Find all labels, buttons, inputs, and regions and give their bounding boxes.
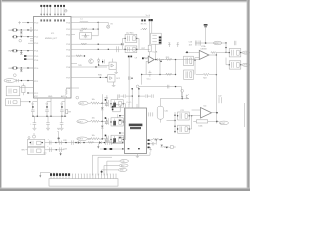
junction after C13 — [160, 61, 162, 63]
junction bottom-left a — [55, 142, 56, 143]
channel row 2 up stubs — [117, 114, 119, 117]
junction row2 — [56, 149, 57, 150]
capacitor C27 plus pair — [45, 139, 58, 145]
capacitor C19 right end — [234, 41, 236, 45]
IC U5 charge caps wires — [132, 88, 139, 108]
RC box B2 — [229, 61, 242, 69]
junction feedback right — [175, 74, 176, 75]
bottom-left filter box 2 — [28, 147, 45, 154]
capacitor C18 left end — [233, 40, 235, 42]
border frame right — [247, 0, 250, 191]
junction bottom-left dark — [58, 137, 60, 139]
channel row 2 resistor R31 — [91, 120, 103, 122]
junction subbox — [29, 101, 30, 102]
svg-text:P3.1: P3.1 — [66, 29, 70, 31]
resistor R19 — [166, 58, 172, 60]
protection diode D1 — [20, 30, 23, 34]
svg-text:P1.5: P1.5 — [34, 56, 38, 58]
channel diode chain 2 — [101, 121, 104, 138]
junction col2 a — [46, 116, 47, 117]
ground col1 — [32, 128, 36, 130]
capacitor C10 — [17, 79, 19, 82]
wire y88 stub — [67, 87, 72, 89]
capacitor C31 plus — [110, 140, 112, 144]
svg-text:P2.1: P2.1 — [34, 81, 38, 83]
wire feedback vertical — [160, 60, 176, 75]
capacitor C28 pair — [56, 140, 66, 144]
transistor circle Q2 — [89, 59, 94, 64]
resistor R17 vertical above op-amp — [148, 45, 151, 56]
channel row 2 net oval — [77, 120, 91, 124]
junction row P3.3 — [98, 44, 99, 45]
ground bottom-left vertical top — [57, 128, 60, 129]
junction P3.7 a — [100, 77, 101, 78]
channel row 3 junction — [102, 138, 104, 140]
junction rail mid — [225, 47, 226, 48]
wire vertical join rows — [97, 22, 99, 35]
wire vertical x129 — [128, 57, 130, 105]
opto U7 ground — [112, 82, 116, 87]
svg-text:OUT: OUT — [243, 65, 246, 67]
top-left caps pair C16 C17 — [189, 41, 201, 47]
IC U1 left pin stubs — [26, 23, 33, 93]
svg-text:OUT3: OUT3 — [78, 139, 83, 141]
IC U5 right pin stubs with labels — [147, 139, 151, 148]
trimmer box RV1 — [80, 32, 92, 39]
connector J3 body — [49, 179, 118, 187]
junction column x175 b — [174, 120, 176, 122]
op-amp U2B input resistor R18 — [144, 57, 149, 59]
wire row P3.4 — [76, 48, 150, 50]
svg-text:P1.1: P1.1 — [34, 30, 38, 32]
junction U2B output — [155, 59, 156, 60]
channel row 1 junction — [102, 102, 104, 104]
wire row P3.3 — [76, 43, 124, 45]
svg-text:VREF: VREF — [6, 80, 12, 82]
bottom rail wire y142.6 — [59, 142, 114, 144]
ground rail — [97, 144, 99, 149]
svg-text:P3.4: P3.4 — [66, 49, 70, 51]
capacitor C15 on mid row — [167, 85, 169, 89]
channel row 1 up stubs — [102, 94, 118, 103]
RC box C2r — [177, 125, 190, 133]
junction LED — [98, 64, 99, 65]
wire top rail to bus — [71, 16, 150, 18]
svg-text:R19: R19 — [166, 57, 169, 59]
wire U2B output — [154, 59, 164, 61]
capacitor row2 C32 — [47, 146, 51, 152]
svg-text:P3.3: P3.3 — [66, 44, 70, 46]
lower rail wire y149 — [100, 148, 125, 150]
wire row P3.1 — [75, 28, 98, 30]
connector J3 left arrow — [39, 173, 41, 178]
wire U2A output — [209, 54, 217, 56]
power flag mid-right — [181, 89, 184, 98]
junction col3 b — [64, 116, 65, 117]
bottom RC row resistor R23 — [151, 138, 163, 140]
IC U5 level shifter body — [125, 108, 147, 154]
junction col1 a — [32, 116, 33, 117]
svg-text:OUT1: OUT1 — [79, 103, 84, 105]
junction column x175 d — [174, 131, 176, 133]
junction oval3 — [101, 171, 103, 173]
RC box B2 out oval label — [242, 63, 249, 66]
junction row9 — [27, 92, 28, 93]
diode D7 on rail — [99, 141, 101, 144]
svg-text:OC2: OC2 — [116, 78, 120, 80]
wire output to boxes — [216, 52, 229, 55]
IC U1 right wire P4.0 — [75, 87, 79, 89]
decoupling column 2 capacitor C3 — [45, 102, 49, 117]
svg-text:C9: C9 — [135, 58, 137, 60]
junction row7 b — [27, 67, 28, 68]
header J1 pin numbers group2 — [54, 14, 64, 15]
svg-text:GND: GND — [48, 96, 53, 98]
RC box B1 — [229, 49, 242, 57]
junction rail a — [65, 142, 66, 143]
IC U5 bottom pin dashes — [128, 148, 140, 149]
junction P3.5 — [84, 55, 85, 56]
channel rows right tie wire — [123, 104, 125, 140]
channel row 2 trimmer — [102, 118, 108, 125]
svg-text:RV1: RV1 — [80, 31, 84, 33]
wire R22 to output — [215, 55, 217, 123]
junction feedback mid — [159, 74, 160, 75]
svg-text:VCC: VCC — [34, 96, 39, 98]
border frame top — [0, 0, 250, 2]
junction row P3.4 b — [108, 49, 109, 50]
crystal box Y1 — [6, 86, 20, 96]
marks x129 pins — [128, 56, 132, 58]
connector J3 pin ticks caps — [72, 173, 116, 175]
junction column x175 c — [174, 125, 176, 127]
decoupling column 2 top tie — [47, 101, 51, 103]
svg-text:C28: C28 — [63, 140, 66, 142]
resistor box col3 branch — [66, 110, 71, 114]
wire output row y59.5 — [161, 59, 199, 61]
wire top rail down — [225, 43, 227, 52]
decoupling column 1 capacitor C1 — [31, 102, 35, 117]
junction R22 right — [216, 74, 217, 75]
circle above box1 — [28, 137, 30, 139]
junction row2 b — [27, 29, 28, 30]
svg-text:C16: C16 — [189, 41, 192, 43]
channel row 3 resistor R32 — [91, 138, 103, 140]
svg-text:10k: 10k — [92, 117, 95, 119]
svg-text:10k: 10k — [92, 135, 95, 137]
sensor port circle — [19, 39, 22, 42]
svg-text:C33: C33 — [63, 148, 66, 150]
svg-text:RX TX: RX TX — [141, 24, 147, 26]
bus wire 1 — [149, 21, 151, 45]
net oval label VCC2 — [213, 41, 221, 45]
pad row5 — [24, 55, 26, 57]
junction rail d — [104, 142, 105, 143]
channel row 2 RC box — [110, 118, 124, 126]
svg-text:LM358: LM358 — [201, 49, 207, 51]
svg-text:P3.2: P3.2 — [66, 35, 70, 37]
boxed resistor RL2 — [184, 70, 194, 79]
diode D4 — [121, 43, 123, 46]
IC U5 left pin stubs — [121, 116, 125, 138]
IC U1 top pin names group1 — [40, 19, 51, 21]
junction top rail — [225, 42, 226, 43]
op-amp U2A — [199, 50, 209, 59]
svg-text:P1.0: P1.0 — [34, 23, 38, 25]
wire feedback down-left — [141, 75, 143, 85]
IC U1 right wire P3.7 row — [79, 76, 108, 78]
sub box bottom-left — [6, 99, 21, 106]
resistor R14 — [81, 43, 87, 45]
bus pin 1 — [149, 19, 151, 21]
junction col1 b — [37, 116, 38, 117]
thermistor circle — [13, 74, 16, 77]
inductor L1 — [80, 21, 88, 22]
decoupling column 1 top tie — [33, 101, 38, 103]
marks x128 cap — [128, 76, 132, 79]
junction U2A output — [216, 54, 217, 55]
electrolytic capacitor C20 tall — [157, 99, 163, 123]
IC U5 left pin marks — [119, 115, 123, 150]
channel row 3 net oval — [77, 137, 91, 141]
svg-text:100k: 100k — [198, 125, 202, 127]
svg-text:C22: C22 — [218, 95, 221, 97]
op-amp U2B — [148, 56, 154, 63]
junction feedback U4 — [216, 121, 218, 123]
junction column x175 top — [174, 114, 176, 116]
op-amp U4 input wires — [192, 110, 201, 115]
net oval label RX — [119, 164, 128, 167]
junction row3 a — [21, 36, 22, 37]
svg-text:C12 R15: C12 R15 — [126, 32, 133, 34]
bulk capacitor C4 — [46, 116, 50, 128]
resistor R13 — [81, 28, 87, 30]
resistor R26 vertical — [65, 88, 67, 98]
svg-text:C21: C21 — [180, 110, 183, 112]
wire right edge vertical — [243, 103, 245, 127]
decoupling column 3 top tie — [62, 101, 65, 103]
port circle right of IC bottom — [76, 96, 79, 99]
net oval label AOUT — [219, 121, 228, 125]
resistor R21 above output — [211, 52, 216, 54]
wire pin5 up — [92, 152, 150, 175]
channel row 3 dark speck — [105, 135, 107, 137]
bottom-left row2 wire — [45, 149, 64, 151]
header J1 pin group 2 leads — [55, 7, 64, 17]
op-amp U2A input wires — [195, 52, 199, 60]
bus pin 2 — [151, 19, 153, 21]
capacitor row2 C33 — [60, 147, 67, 152]
IC U5 top pin stubs — [129, 104, 137, 108]
protection diode D3 — [20, 68, 23, 72]
IC U1 bottom pin stubs — [37, 98, 65, 116]
capacitor C25 — [139, 94, 153, 97]
wire RL join vertical — [194, 60, 196, 74]
pad row6 — [24, 58, 26, 60]
net oval label VREF — [4, 79, 16, 83]
channel row 1 net oval — [78, 101, 90, 105]
svg-text:RXD: RXD — [98, 75, 103, 77]
feedback resistor R24 boxed — [193, 120, 217, 123]
capacitor C30 plus — [104, 139, 107, 145]
channel row 1 RC box — [110, 100, 124, 108]
header J1 pin numbers group1 — [41, 14, 51, 15]
RC box B1 out oval label — [242, 51, 249, 54]
ferrite bead FB3 — [11, 67, 34, 70]
junction top-right rail — [205, 42, 207, 44]
feedback capacitor C14 — [148, 71, 151, 77]
channel row 1 trimmer — [102, 100, 108, 107]
junction charge d — [138, 95, 139, 96]
resistor R5 vertical — [22, 84, 25, 96]
resistor R28 right of U5 — [163, 146, 175, 149]
capacitor C26 — [102, 59, 104, 63]
svg-text:OUT2: OUT2 — [78, 121, 83, 123]
opto ground — [114, 67, 118, 74]
wire left drop to U2A — [185, 51, 195, 53]
border frame left — [0, 0, 2, 191]
column resistor R16 — [141, 28, 147, 30]
RC box A2 — [124, 46, 137, 53]
border frame bottom — [0, 188, 250, 191]
ground col2 — [46, 128, 50, 130]
power flag pair a — [168, 42, 171, 47]
svg-text:IC4: IC4 — [203, 106, 206, 108]
feedback row wire — [142, 74, 176, 76]
svg-text:AOUT: AOUT — [220, 122, 226, 125]
channel row 2 dark speck — [105, 117, 107, 119]
bottom-left filter box 1 — [28, 139, 45, 146]
svg-text:R17: R17 — [142, 48, 145, 50]
ground col3 — [60, 128, 64, 130]
wire subbox — [20, 101, 29, 103]
wire oval3 — [102, 170, 119, 176]
capacitor C11 series — [117, 46, 119, 52]
wire boxes right join — [189, 116, 191, 129]
wire top rail right — [196, 42, 227, 44]
feedback resistor R22 — [196, 73, 216, 75]
net oval label TX — [120, 160, 129, 163]
svg-text:V+ G: V+ G — [146, 15, 151, 17]
svg-text:R22: R22 — [203, 77, 206, 79]
wire mid-right rail — [160, 98, 189, 100]
connector J3 left stub — [40, 173, 57, 174]
junction row P3.4 a — [98, 49, 99, 50]
channel row 3 RC box — [110, 135, 124, 143]
svg-text:0.1u: 0.1u — [147, 79, 151, 81]
junction row3 b — [27, 36, 28, 37]
ferrite bead FB2 — [11, 49, 34, 52]
junction row P3.1 a — [93, 28, 94, 29]
capacitor C29 on rail — [72, 140, 74, 144]
wire mid row down — [180, 87, 182, 97]
svg-text:R9: R9 — [68, 112, 70, 114]
wire row9 — [20, 86, 28, 88]
junction row4 a — [21, 50, 22, 51]
junction charge b — [138, 88, 140, 90]
junction row2 a — [21, 29, 22, 30]
power port circle bottom-left — [33, 133, 36, 138]
svg-text:C+ C-: C+ C- — [126, 102, 131, 104]
svg-text:P1.6: P1.6 — [34, 60, 38, 62]
resistor R25 — [76, 55, 82, 57]
svg-text:10k: 10k — [92, 99, 95, 101]
connector J3 light pins — [73, 174, 116, 178]
down arrow symbol — [60, 152, 62, 156]
wire column x175 — [167, 112, 176, 133]
channel row 2 junction — [102, 121, 104, 123]
wire U4 output — [212, 112, 218, 114]
transistor Q1 — [186, 94, 189, 99]
channel diode chain 1 — [101, 103, 104, 121]
ground rail below IC — [33, 115, 67, 117]
channel row 1 resistor R30 — [91, 102, 103, 104]
junction P3.7 b — [105, 77, 106, 78]
junction charge a — [131, 88, 133, 90]
svg-text:OUT: OUT — [243, 52, 246, 54]
junction mid-right — [181, 98, 183, 100]
header J1 pin group 2 — [54, 5, 65, 7]
power flag VCC top — [65, 10, 68, 13]
capacitor pair left of C20 — [149, 112, 153, 116]
IC U5 bottom ground — [136, 154, 139, 158]
svg-text:P2.0: P2.0 — [34, 68, 38, 70]
junction boxes right join — [191, 115, 192, 116]
svg-text:MSP430_UCT: MSP430_UCT — [45, 38, 58, 40]
svg-text:P1.4: P1.4 — [34, 51, 38, 53]
junction col3 a — [61, 116, 62, 117]
junction rail c — [83, 142, 84, 143]
capacitor C23 plus — [151, 140, 156, 145]
bottom-left ground 1 — [43, 151, 46, 155]
resistor R27 on rail — [88, 141, 94, 143]
ground U5 right — [149, 147, 152, 151]
junction U4 output — [216, 112, 218, 114]
ground D1 — [20, 35, 22, 36]
opto box U7 — [108, 75, 115, 82]
transceiver box U3 — [151, 33, 162, 44]
decoupling column 3 capacitor C5 — [60, 102, 64, 117]
wire bottom-left vertical — [57, 132, 58, 143]
junction mid row — [175, 86, 176, 87]
svg-text:22: 22 — [30, 31, 32, 33]
IC U5 name dark text — [129, 124, 143, 130]
capacitor C24 — [118, 94, 132, 97]
series capacitor C13 — [158, 58, 160, 61]
junction row7 a — [21, 67, 22, 68]
junction row8 — [21, 80, 22, 81]
svg-text:R27: R27 — [88, 139, 91, 141]
svg-text:C20: C20 — [164, 111, 167, 113]
op-amp U2B input pin dark — [142, 57, 144, 59]
IC U1 right pin stubs — [71, 22, 79, 88]
svg-text:103: 103 — [189, 44, 192, 46]
RC box B1 out wire — [241, 52, 242, 54]
junction row1 — [27, 22, 28, 23]
svg-text:TXD: TXD — [78, 65, 82, 67]
svg-text:P3.6: P3.6 — [66, 67, 70, 69]
svg-text:P1.2: P1.2 — [34, 37, 38, 39]
opto box U6 — [99, 59, 117, 70]
IC U1 right wire P3.6 row — [77, 66, 107, 68]
wire row P3.0 — [76, 21, 98, 23]
junction RL join — [194, 60, 195, 61]
op-amp U4 — [201, 108, 212, 119]
junction rail b — [75, 142, 76, 143]
svg-text:P3.0: P3.0 — [66, 22, 70, 24]
svg-text:P2.2: P2.2 — [34, 93, 38, 95]
supply symbol circle-x — [107, 22, 114, 28]
